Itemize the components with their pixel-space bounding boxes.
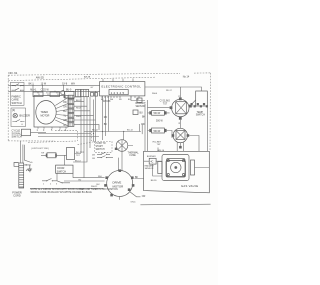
svg-text:RD: RD (63, 102, 67, 104)
timer terminal ticks top (39, 94, 65, 96)
svg-text:AW-3B: AW-3B (84, 75, 91, 78)
radiant sensor box (149, 158, 156, 164)
svg-text:WH: WH (63, 120, 67, 122)
svg-text:TST: TST (163, 104, 168, 106)
svg-text:WH-6: WH-6 (152, 93, 158, 95)
gas valve burner assembly outer (162, 155, 189, 181)
switch bank A above timer (33, 92, 43, 97)
drive motor M2 (107, 170, 133, 196)
svg-text:WH: WH (71, 83, 75, 85)
svg-text:12345: 12345 (111, 91, 126, 95)
timer motor M1 (36, 101, 56, 125)
svg-text:BK: BK (104, 124, 108, 126)
junction dots middle (83, 136, 85, 138)
thermistor RT1 box (137, 98, 142, 103)
switch push-to-start contacts (97, 152, 113, 157)
svg-text:AW-16: AW-16 (158, 149, 165, 152)
electronic control inner terminal strip (109, 90, 128, 95)
temp switch terminal cluster (191, 103, 209, 107)
svg-text:THERMAL: THERMAL (128, 151, 140, 154)
fuse TW thermal cutoff (47, 153, 56, 158)
svg-text:BU-14: BU-14 (127, 130, 134, 132)
svg-text:NOTE: ALL WIRING SHOWN WITH DO: NOTE: ALL WIRING SHOWN WITH DOOR CLOSED … (31, 188, 119, 191)
relay box console lower-right of signal switch (22, 129, 31, 136)
svg-text:BURNER: BURNER (147, 156, 156, 158)
svg-text:BU: BU (63, 111, 67, 113)
svg-text:MA-6: MA-6 (30, 88, 36, 91)
svg-text:BUZZER: BUZZER (20, 113, 31, 117)
wire timer fan-out (55, 98, 68, 127)
svg-text:SWITCH: SWITCH (96, 149, 105, 151)
timer T1 box (34, 96, 68, 128)
svg-text:SENSOR: SENSOR (136, 106, 146, 108)
svg-text:START: START (96, 145, 104, 148)
wire bulkhead dashed (28, 141, 77, 143)
svg-text:CORD: CORD (13, 195, 21, 198)
svg-text:TW: TW (41, 153, 44, 155)
gas valve box (144, 151, 210, 193)
svg-text:WH-12: WH-12 (91, 186, 98, 188)
cycling thermostat TS1 (172, 99, 189, 116)
electronic control U1 box (100, 82, 145, 96)
wire console drops to door switch (73, 97, 90, 162)
svg-text:NO. 61: NO. 61 (9, 71, 18, 75)
switch signal enclosure (11, 108, 26, 127)
wire row junction drops (33, 85, 64, 92)
wire console row1 (8, 84, 99, 86)
svg-text:WH: WH (98, 176, 102, 178)
wire power cord leads (20, 141, 31, 165)
svg-text:WIRING CODE: BK-BLACK WH-WHIT: WIRING CODE: BK-BLACK WH-WHITE RD-RED BU… (31, 191, 93, 194)
svg-text:[4]: [4] (12, 108, 15, 112)
svg-text:MOTOR: MOTOR (41, 114, 50, 117)
svg-text:SWITCH: SWITCH (12, 135, 22, 139)
svg-text:SWITCH: SWITCH (12, 101, 22, 105)
capacitor small box under EC (133, 110, 138, 115)
svg-text:500 W: 500 W (156, 120, 164, 122)
svg-text:AW-2D: AW-2D (36, 75, 44, 79)
svg-text:BK-14: BK-14 (75, 160, 81, 162)
svg-text:| LINT DUCT SW |: | LINT DUCT SW | (31, 148, 49, 150)
svg-text:BK-1: BK-1 (29, 83, 35, 85)
wire middle horizontal runs (38, 91, 99, 155)
power cord clamp (14, 163, 19, 167)
switch door contacts (42, 173, 62, 183)
electronic control terminal ticks (102, 96, 139, 98)
svg-text:BK-30: BK-30 (151, 180, 158, 182)
wire motor to gas valve (120, 179, 144, 200)
svg-text:GAS VALVE: GAS VALVE (181, 184, 198, 188)
svg-text:FABRIC: FABRIC (12, 94, 21, 98)
switch box E temp selector (81, 89, 89, 96)
svg-text:WH-BK: WH-BK (103, 101, 111, 103)
wire gas valve stubs (128, 146, 158, 152)
svg-text:RD-12: RD-12 (92, 129, 99, 131)
wire gas valve internal (144, 161, 210, 176)
switch bank C above timer (65, 92, 75, 99)
gas valve inner detail rect (166, 161, 186, 178)
wire console row2 (8, 90, 99, 92)
svg-text:BU-9: BU-9 (66, 89, 72, 91)
timer terminal ticks bottom (38, 127, 66, 129)
svg-text:No 14: No 14 (183, 76, 190, 79)
switch fabric-care enclosure (10, 83, 24, 106)
switch bank B above timer (50, 92, 60, 97)
svg-text:RD: RD (104, 117, 108, 119)
svg-text:GY-8: GY-8 (62, 83, 68, 85)
wire cabinet right dashed boundary (209, 73, 211, 151)
gas valve solenoid circle (171, 162, 181, 172)
svg-text:OR-5: OR-5 (131, 202, 137, 204)
svg-text:CYCLING: CYCLING (160, 100, 171, 102)
temp switch S2 box (196, 91, 208, 106)
hi-limit thermostat TS2 (173, 128, 187, 142)
svg-text:1M: 1M (92, 158, 95, 160)
svg-text:BK: BK (135, 177, 139, 179)
svg-text:BU: BU (97, 184, 100, 186)
wire gas line bottom (140, 203, 210, 206)
drive motor terminals (104, 169, 134, 196)
gas valve bolts (167, 160, 169, 162)
svg-text:GY: GY (63, 125, 67, 127)
svg-text:MOTOR: MOTOR (113, 184, 124, 188)
svg-text:2M: 2M (92, 154, 95, 156)
push-to-start switch S3 label (95, 142, 113, 153)
resistor R2 holding coil (152, 128, 165, 133)
wire console bottom dashed boundary (8, 140, 55, 142)
wire coils connections (145, 100, 172, 152)
wire cabinet top dashed boundary (8, 73, 210, 75)
switch box D dry-miser (76, 89, 81, 96)
switch fabric-care contacts (12, 84, 25, 91)
wire hi-limit to gas valve (180, 125, 199, 152)
wire connector stubs to verticals (74, 97, 99, 130)
svg-text:ELECTRONIC CONTROL: ELECTRONIC CONTROL (102, 84, 142, 88)
ground cabinet (26, 165, 32, 172)
svg-text:4C: 4C (150, 162, 153, 164)
wire feeds into drive motor top (84, 124, 142, 171)
svg-text:RD: RD (141, 124, 145, 126)
thermal fuse F1 (116, 140, 128, 152)
wire console bottom dashed step (55, 130, 95, 144)
wire console top dashed boundary (8, 77, 155, 80)
svg-text:TEMP: TEMP (197, 112, 204, 114)
buzzer BZ1 (13, 113, 17, 117)
resistor R1 booster coil (152, 111, 165, 116)
svg-text:C 2D W: C 2D W (41, 89, 50, 91)
lamp drum light (61, 91, 65, 95)
svg-text:RD-17: RD-17 (166, 90, 173, 92)
hi-limit heater box thermostat rect (67, 148, 75, 160)
wire EC drops to motor area (103, 96, 109, 140)
svg-text:RADIANT: RADIANT (136, 102, 147, 105)
wire EC right stub (131, 96, 145, 101)
svg-text:560 W: 560 W (154, 113, 162, 115)
wire door switch to motor (30, 132, 105, 189)
svg-text:OR: OR (63, 106, 67, 108)
svg-text:10 W: 10 W (41, 83, 47, 85)
connector block column CN1 (68, 95, 74, 126)
switch signal contacts (12, 120, 24, 122)
svg-text:FUSE: FUSE (130, 155, 137, 157)
wire cabinet left dashed boundary (7, 75, 9, 141)
svg-text:PUSH TO: PUSH TO (96, 143, 106, 145)
wire temp switch down right side (180, 106, 207, 151)
power cord PC1 (19, 163, 24, 188)
gas valve side tabs (158, 162, 162, 174)
svg-text:BK: BK (63, 97, 67, 99)
wire EC top ticks to console line (103, 78, 133, 81)
svg-text:560 W: 560 W (154, 131, 162, 133)
svg-text:BU: BU (140, 113, 144, 115)
wire EC to temp switch (145, 87, 202, 91)
svg-text:SWITCH: SWITCH (57, 170, 67, 173)
door switch S4 box (56, 165, 73, 173)
svg-text:CARE: CARE (12, 98, 19, 102)
svg-text:OR: OR (142, 196, 146, 198)
wire hi-limit drops into gas valve (177, 142, 183, 151)
svg-text:TST: TST (157, 144, 162, 146)
svg-text:SWITCH: SWITCH (196, 115, 206, 117)
gas valve burner assembly inner (167, 159, 186, 177)
